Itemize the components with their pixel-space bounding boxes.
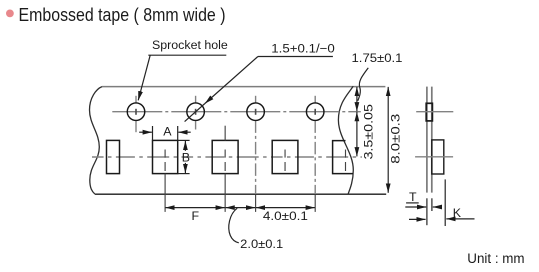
svg-text:Embossed tape ( 8mm wide ): Embossed tape ( 8mm wide ): [19, 4, 226, 25]
svg-text:8.0±0.3: 8.0±0.3: [388, 114, 402, 164]
svg-text:3.5±0.05: 3.5±0.05: [361, 104, 375, 160]
svg-text:Unit : mm: Unit : mm: [467, 251, 524, 266]
svg-text:1.5+0.1/−0: 1.5+0.1/−0: [271, 42, 335, 56]
svg-text:F: F: [192, 209, 200, 223]
svg-text:B: B: [182, 150, 190, 164]
svg-text:Sprocket hole: Sprocket hole: [152, 38, 228, 52]
svg-text:A: A: [163, 125, 172, 139]
svg-text:4.0±0.1: 4.0±0.1: [263, 209, 308, 223]
svg-text:T: T: [409, 190, 417, 204]
svg-text:1.75±0.1: 1.75±0.1: [352, 51, 403, 65]
svg-text:K: K: [453, 206, 462, 220]
svg-text:2.0±0.1: 2.0±0.1: [240, 237, 283, 251]
